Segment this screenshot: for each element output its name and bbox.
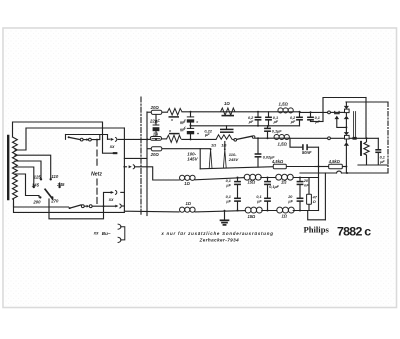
svg-text:Ω: Ω [312, 200, 316, 204]
svg-text:µF: µF [204, 132, 210, 137]
svg-text:Bu~: Bu~ [102, 231, 111, 236]
svg-text:0,02µF: 0,02µF [263, 155, 276, 159]
svg-text:1Ω: 1Ω [224, 101, 230, 106]
svg-text:110: 110 [51, 174, 58, 179]
svg-text:125: 125 [34, 175, 42, 180]
svg-text:nF: nF [304, 183, 309, 187]
svg-text:0,1µF: 0,1µF [272, 130, 282, 134]
svg-text:xx: xx [109, 144, 115, 149]
svg-text:1Ω: 1Ω [186, 201, 192, 206]
svg-text:1,5Ω: 1,5Ω [279, 102, 289, 107]
svg-text:xx: xx [93, 231, 99, 236]
svg-text:1A: 1A [153, 132, 159, 137]
svg-text:50nF: 50nF [302, 150, 312, 155]
svg-text:1Ω: 1Ω [221, 142, 226, 147]
svg-text:0,1µF: 0,1µF [269, 185, 279, 189]
svg-text:200: 200 [32, 199, 41, 204]
svg-text:µF: µF [225, 183, 231, 187]
svg-text:xx: xx [108, 197, 114, 202]
svg-text:245V: 245V [228, 157, 239, 162]
svg-text:20Ω: 20Ω [150, 152, 160, 157]
svg-text:145V: 145V [187, 157, 198, 162]
svg-text:145: 145 [32, 183, 40, 188]
svg-text:µF: µF [256, 199, 262, 203]
svg-text:Netz: Netz [91, 172, 102, 178]
svg-text:µF: µF [273, 120, 279, 124]
svg-text:110-: 110- [229, 152, 237, 157]
svg-text:µF: µF [225, 199, 231, 203]
svg-text:µF: µF [290, 120, 296, 124]
svg-text:22µF: 22µF [149, 119, 160, 124]
svg-text:µF: µF [287, 199, 293, 203]
svg-text:7882 c: 7882 c [337, 224, 371, 238]
svg-text:1,5Ω: 1,5Ω [278, 142, 288, 147]
svg-text:20Ω: 20Ω [150, 105, 160, 110]
svg-text:µF: µF [248, 120, 254, 124]
svg-text:µF: µF [314, 120, 320, 124]
svg-text:15Ω: 15Ω [248, 214, 257, 219]
svg-text:4,5kΩ: 4,5kΩ [271, 159, 284, 164]
svg-text:Zerhacker-7934: Zerhacker-7934 [199, 237, 240, 242]
svg-text:1Ω: 1Ω [184, 181, 190, 186]
svg-text:1Ω: 1Ω [281, 179, 287, 184]
svg-text:245: 245 [56, 182, 65, 187]
svg-text:Philips: Philips [304, 225, 330, 235]
svg-text:270: 270 [50, 199, 59, 204]
svg-text:1Ω: 1Ω [282, 214, 288, 219]
svg-text:x nur für zusätzliche Sonderau: x nur für zusätzliche Sonderausrüstung [160, 231, 273, 236]
svg-text:15Ω: 15Ω [248, 179, 257, 184]
svg-text:1Ω: 1Ω [211, 142, 216, 147]
svg-text:µF: µF [379, 160, 385, 164]
svg-text:4,5kΩ: 4,5kΩ [328, 159, 341, 164]
